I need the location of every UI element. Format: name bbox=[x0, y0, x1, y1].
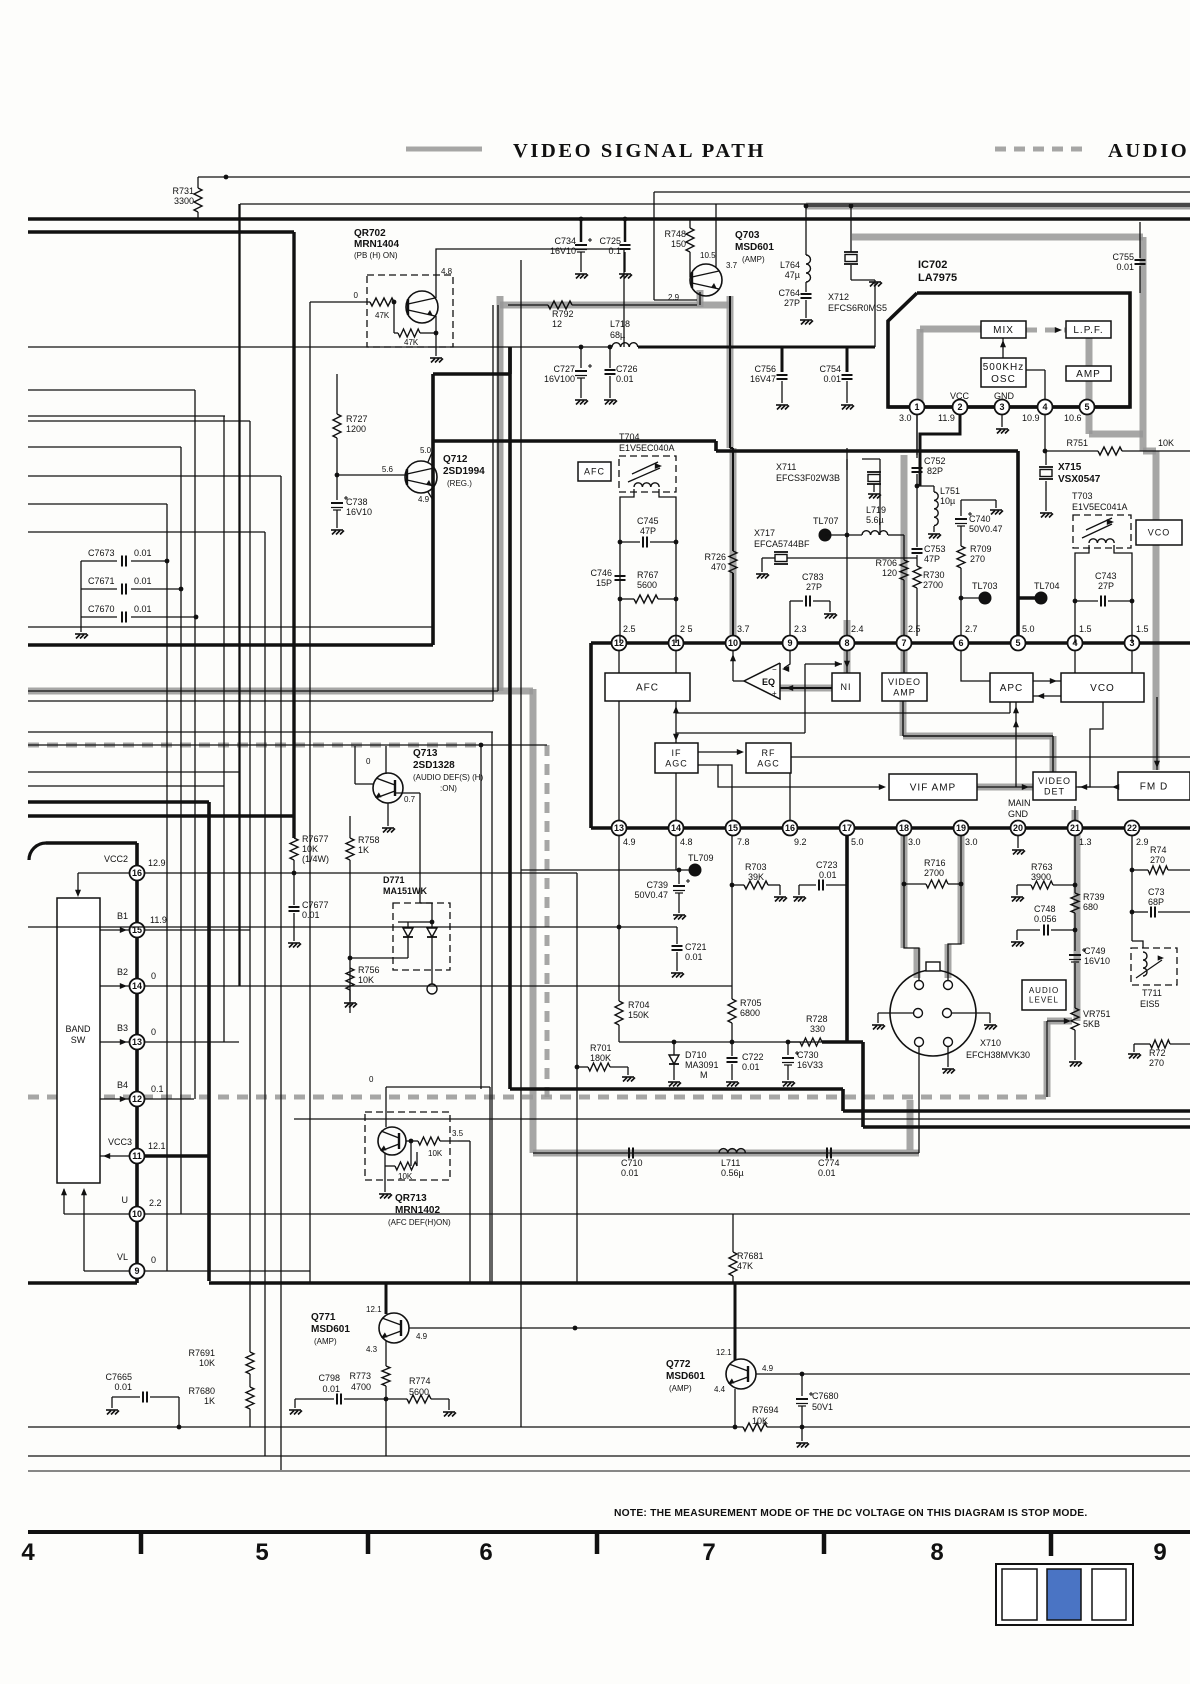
svg-text:B3: B3 bbox=[117, 1023, 128, 1033]
svg-text:R7677: R7677 bbox=[302, 834, 329, 844]
wire D771 top from Q713 bbox=[419, 855, 421, 903]
wire TL704 thick bbox=[1018, 596, 1041, 600]
svg-text:330: 330 bbox=[810, 1024, 825, 1034]
connector X710 bbox=[890, 970, 976, 1056]
svg-text:C764: C764 bbox=[778, 288, 800, 298]
nav box outer bbox=[996, 1564, 1133, 1625]
bus thick h y1111 bbox=[843, 1109, 1190, 1113]
svg-text:9: 9 bbox=[787, 638, 792, 648]
ruler tick 2 bbox=[366, 1532, 371, 1554]
svg-text:27P: 27P bbox=[1098, 581, 1114, 591]
svg-text:C746: C746 bbox=[590, 568, 612, 578]
wire bus h y745 bbox=[28, 744, 547, 746]
svg-text:10K: 10K bbox=[398, 1172, 413, 1181]
pin 22 bbox=[1125, 821, 1140, 836]
capacitor C7673 bbox=[81, 560, 117, 562]
svg-text:0: 0 bbox=[151, 1255, 156, 1265]
wire bus h y701 bbox=[28, 700, 493, 702]
wire Q771 emitter bbox=[385, 1341, 387, 1366]
svg-text:BAND: BAND bbox=[65, 1024, 91, 1034]
svg-text:10K: 10K bbox=[1158, 438, 1174, 448]
capacitor C721 bbox=[676, 927, 678, 944]
svg-text:NOTE: THE MEASUREMENT MODE OF: NOTE: THE MEASUREMENT MODE OF THE DC VOL… bbox=[614, 1508, 1087, 1519]
ground C734 bbox=[575, 274, 588, 279]
svg-text:8: 8 bbox=[930, 1539, 943, 1566]
svg-text:150K: 150K bbox=[628, 1010, 649, 1020]
ground X710 bottom bbox=[942, 1069, 955, 1074]
svg-text:C730: C730 bbox=[797, 1050, 819, 1060]
svg-text:1.3: 1.3 bbox=[1079, 837, 1092, 847]
svg-text:2 5: 2 5 bbox=[680, 624, 693, 634]
svg-text:VSX0547: VSX0547 bbox=[1058, 474, 1101, 485]
wire v x654 bbox=[653, 192, 655, 300]
svg-text:R7681: R7681 bbox=[737, 1251, 764, 1261]
svg-text:R704: R704 bbox=[628, 1000, 650, 1010]
resistor R7677 bbox=[290, 838, 298, 860]
wire L764 top bbox=[805, 206, 807, 255]
diode D771a bbox=[407, 922, 409, 928]
gray highlight layer: video/audio signal path bbox=[28, 149, 1190, 1153]
svg-text:X710: X710 bbox=[980, 1038, 1001, 1048]
svg-text:2.7: 2.7 bbox=[965, 624, 978, 634]
svg-text:B1: B1 bbox=[117, 911, 128, 921]
svg-text:VIDEO SIGNAL PATH: VIDEO SIGNAL PATH bbox=[513, 140, 766, 162]
wire pin7 v bbox=[903, 650, 905, 673]
transistor Q712 bbox=[405, 461, 437, 493]
svg-text:10.6: 10.6 bbox=[1064, 413, 1082, 423]
capacitor C726 bbox=[609, 347, 611, 368]
svg-text:C7671: C7671 bbox=[88, 576, 115, 586]
wire R727 bottom bbox=[336, 438, 338, 475]
inductor L764 bbox=[806, 255, 811, 282]
svg-text:M: M bbox=[700, 1070, 708, 1080]
wire bus v x224 bbox=[223, 416, 225, 1042]
svg-text:2700: 2700 bbox=[923, 580, 943, 590]
pin 6 bbox=[954, 636, 969, 651]
svg-text:C734: C734 bbox=[554, 236, 576, 246]
wire L718 line left bbox=[28, 346, 612, 348]
wire VCO to VDET bbox=[1078, 702, 1103, 787]
pin 3 bbox=[995, 400, 1010, 415]
svg-text:3.5: 3.5 bbox=[452, 1129, 464, 1138]
svg-text:13: 13 bbox=[132, 1037, 142, 1047]
ground C730 bbox=[782, 1082, 795, 1087]
svg-text:C754: C754 bbox=[819, 364, 841, 374]
transistor Q771 bbox=[379, 1313, 409, 1343]
wire B1 bbox=[100, 929, 130, 931]
wire C798 gnd bbox=[294, 1399, 296, 1408]
svg-text:C7665: C7665 bbox=[105, 1372, 132, 1382]
IC702 top outline bbox=[888, 293, 1130, 407]
svg-text:1.5: 1.5 bbox=[1079, 624, 1092, 634]
svg-text:L711: L711 bbox=[721, 1158, 740, 1168]
svg-text:EIS5: EIS5 bbox=[1140, 999, 1160, 1009]
svg-text:0.01: 0.01 bbox=[322, 1384, 340, 1394]
box VIF AMP bbox=[889, 774, 977, 800]
ground L751 bbox=[928, 534, 941, 539]
ground C727 bbox=[575, 400, 588, 405]
pin 12 bbox=[612, 636, 627, 651]
wire OSC out bbox=[1026, 369, 1045, 371]
svg-text:2.3: 2.3 bbox=[794, 624, 807, 634]
terminal D771 bbox=[427, 984, 437, 994]
pin 16 bbox=[783, 821, 798, 836]
wire C756 hang bbox=[781, 347, 784, 372]
svg-text:0.01: 0.01 bbox=[823, 374, 841, 384]
svg-text:0.01: 0.01 bbox=[819, 870, 837, 880]
svg-text:150: 150 bbox=[671, 239, 686, 249]
svg-text:R74: R74 bbox=[1150, 845, 1167, 855]
resistor R792 bbox=[548, 301, 572, 309]
svg-text:R767: R767 bbox=[637, 570, 659, 580]
gray path MIX to LPF bbox=[1055, 327, 1062, 333]
ground C722 bbox=[726, 1082, 739, 1087]
pin 11 VCC3 bbox=[130, 1149, 145, 1164]
svg-text:E1V5EC041A: E1V5EC041A bbox=[1072, 502, 1128, 512]
capacitor C727 bbox=[580, 347, 582, 368]
wire pin14col v bbox=[675, 835, 677, 870]
svg-text:4: 4 bbox=[21, 1539, 35, 1566]
box 500KHz OSC bbox=[981, 358, 1026, 387]
pin 4 bbox=[1038, 400, 1053, 415]
svg-text:C745: C745 bbox=[637, 516, 659, 526]
svg-text:EFCA5744BF: EFCA5744BF bbox=[754, 539, 810, 549]
svg-text:VCO: VCO bbox=[1148, 528, 1171, 538]
svg-text:R72: R72 bbox=[1149, 1048, 1166, 1058]
svg-text:QR713: QR713 bbox=[395, 1193, 427, 1204]
svg-text:4.3: 4.3 bbox=[366, 1345, 378, 1354]
svg-text:C721: C721 bbox=[685, 942, 707, 952]
svg-text:EFCS3F02W3B: EFCS3F02W3B bbox=[776, 473, 840, 483]
svg-text:2.2: 2.2 bbox=[149, 1198, 162, 1208]
ground X710 right bbox=[984, 1025, 997, 1030]
pin row top thick bbox=[591, 641, 1190, 645]
svg-text:AMP: AMP bbox=[893, 688, 916, 698]
svg-text:270: 270 bbox=[970, 554, 985, 564]
svg-text:1: 1 bbox=[914, 402, 919, 412]
pin 20 bbox=[1011, 821, 1026, 836]
nav box middle pane blue bbox=[1047, 1569, 1081, 1620]
ground C756 bbox=[776, 405, 789, 410]
svg-text:0: 0 bbox=[366, 757, 371, 766]
junction R773 bbox=[384, 1397, 389, 1402]
wire h y870 bbox=[521, 869, 695, 871]
svg-text:VCC: VCC bbox=[950, 391, 970, 401]
resistor R751 bbox=[1046, 450, 1098, 452]
pin 15 B1 bbox=[130, 923, 145, 938]
svg-text:R705: R705 bbox=[740, 998, 762, 1008]
svg-text:MIX: MIX bbox=[993, 325, 1014, 336]
nav box right pane bbox=[1092, 1569, 1126, 1620]
wire pin3 to VCO bbox=[1131, 650, 1133, 673]
pin 13 bbox=[612, 821, 627, 836]
ground Q713 bbox=[382, 828, 395, 833]
wire Q712 emitter bbox=[428, 492, 433, 500]
svg-text:AUDIO: AUDIO bbox=[1108, 140, 1189, 162]
wire C783 to pin9 bbox=[789, 601, 791, 636]
svg-text:9: 9 bbox=[134, 1266, 139, 1276]
svg-text:AGC: AGC bbox=[757, 759, 780, 769]
wire C7665 gnd bbox=[111, 1397, 113, 1408]
pin 18 bbox=[897, 821, 912, 836]
svg-text:5600: 5600 bbox=[637, 580, 657, 590]
svg-text:TL704: TL704 bbox=[1034, 581, 1060, 591]
svg-text:1K: 1K bbox=[204, 1396, 215, 1406]
svg-text:0.01: 0.01 bbox=[818, 1168, 836, 1178]
pin 5 bbox=[1080, 400, 1095, 415]
wire pin21 v bbox=[1074, 806, 1076, 821]
svg-text:50V0.47: 50V0.47 bbox=[969, 524, 1003, 534]
svg-text:68P: 68P bbox=[1148, 897, 1164, 907]
box VCO bbox=[1061, 673, 1144, 702]
pin 14 bbox=[669, 821, 684, 836]
wire U arrow up bbox=[61, 1188, 67, 1195]
svg-text:MA151WK: MA151WK bbox=[383, 886, 428, 896]
bus thick h y816 bbox=[28, 814, 294, 818]
svg-text:0.01: 0.01 bbox=[134, 576, 152, 586]
wire AFC to pin14 via bbox=[675, 701, 677, 743]
svg-text:11: 11 bbox=[132, 1151, 142, 1161]
svg-text:5.6: 5.6 bbox=[382, 465, 394, 474]
wire TL707 line bbox=[825, 534, 862, 536]
wire T703 body left bbox=[1075, 545, 1089, 643]
wire OSC to MIX arrow bbox=[1002, 338, 1004, 358]
wire v x310 base drive bbox=[310, 301, 345, 303]
ground C7680 bbox=[796, 1443, 809, 1448]
inductor L718 bbox=[612, 343, 638, 347]
svg-text:RF: RF bbox=[762, 748, 776, 758]
svg-text:AUDIO: AUDIO bbox=[1029, 986, 1059, 995]
svg-text:0: 0 bbox=[354, 291, 359, 300]
wire v x730 Q703 out bbox=[729, 296, 731, 448]
svg-text:R739: R739 bbox=[1083, 892, 1105, 902]
svg-text:16V10: 16V10 bbox=[550, 246, 576, 256]
svg-text:2.5: 2.5 bbox=[623, 624, 636, 634]
svg-text:21: 21 bbox=[1070, 823, 1080, 833]
svg-text:IC702: IC702 bbox=[918, 259, 947, 271]
svg-text:11.9: 11.9 bbox=[938, 413, 955, 423]
wire pin18 col bbox=[904, 835, 919, 981]
svg-text:5.0: 5.0 bbox=[1022, 624, 1035, 634]
svg-text:C722: C722 bbox=[742, 1052, 764, 1062]
svg-text:2.4: 2.4 bbox=[851, 624, 864, 634]
svg-text:L764: L764 bbox=[780, 260, 800, 270]
wire pin11 to AFC bbox=[675, 650, 677, 673]
svg-text:16V47: 16V47 bbox=[750, 374, 776, 384]
wire QR713 emitter bbox=[384, 1153, 386, 1166]
svg-text:C7680: C7680 bbox=[812, 1391, 839, 1401]
wire bus h y732 bbox=[28, 731, 493, 733]
bus thick h y1089 jog bbox=[510, 1087, 843, 1091]
pin 9 bbox=[783, 636, 798, 651]
svg-text:DET: DET bbox=[1044, 787, 1065, 797]
wire thick x1018 pin5 bbox=[1016, 451, 1020, 643]
svg-text:R701: R701 bbox=[590, 1043, 612, 1053]
svg-text:16V33: 16V33 bbox=[797, 1060, 823, 1070]
svg-text:GND: GND bbox=[994, 391, 1015, 401]
svg-text:2.9: 2.9 bbox=[1136, 837, 1149, 847]
svg-text:TL707: TL707 bbox=[813, 516, 839, 526]
wire VR751 wiper bbox=[1047, 1020, 1069, 1022]
svg-text:5.0: 5.0 bbox=[420, 446, 432, 455]
box APC bbox=[990, 673, 1033, 702]
svg-text:C798: C798 bbox=[318, 1373, 340, 1383]
wire R763 gnd bbox=[1016, 885, 1018, 895]
pin 9 VL bbox=[130, 1264, 145, 1279]
ruler tick 5 bbox=[1049, 1532, 1054, 1556]
svg-text:7: 7 bbox=[901, 638, 906, 648]
svg-text:MSD601: MSD601 bbox=[311, 1324, 350, 1335]
svg-text:C710: C710 bbox=[621, 1158, 643, 1168]
wire Q703 emitter down bbox=[699, 292, 701, 305]
svg-text:R7680: R7680 bbox=[188, 1386, 215, 1396]
resistor QR713 10K right bbox=[418, 1137, 440, 1145]
transistor QR713 bbox=[378, 1127, 406, 1155]
box AMP bbox=[1066, 366, 1111, 381]
box LPF bbox=[1066, 321, 1111, 338]
svg-text:MAIN: MAIN bbox=[1008, 798, 1031, 808]
svg-text:TL703: TL703 bbox=[972, 581, 998, 591]
junction C752 bbox=[915, 484, 920, 489]
bus thick x863 bbox=[861, 1042, 865, 1127]
wire VCC2 right bbox=[144, 872, 577, 874]
wire bus v x239 bbox=[238, 204, 240, 986]
wire pin22 col bbox=[1131, 835, 1133, 941]
bus thick h y645 bbox=[28, 643, 433, 647]
svg-text:19: 19 bbox=[956, 823, 966, 833]
svg-text:12: 12 bbox=[614, 638, 624, 648]
wire L764 bottom bbox=[805, 282, 807, 292]
wire bus h y416 bbox=[28, 415, 225, 417]
svg-text:3.0: 3.0 bbox=[908, 837, 921, 847]
ruler tick 3 bbox=[595, 1532, 600, 1554]
wire bus h y786 bbox=[28, 785, 224, 787]
ground C754 bbox=[841, 405, 854, 410]
svg-text::ON): :ON) bbox=[440, 784, 457, 793]
svg-text:C73: C73 bbox=[1148, 887, 1165, 897]
svg-text:C783: C783 bbox=[802, 572, 824, 582]
wire v x481 bbox=[480, 745, 482, 1089]
pin row bottom thick bbox=[591, 826, 1190, 830]
ground R72x bbox=[1128, 1054, 1141, 1059]
svg-text:0.01: 0.01 bbox=[685, 952, 703, 962]
ground X711 bbox=[868, 494, 881, 499]
svg-text:T703: T703 bbox=[1072, 491, 1093, 501]
pin 3 bbox=[1125, 636, 1140, 651]
svg-text:R774: R774 bbox=[409, 1376, 431, 1386]
svg-text:(1/4W): (1/4W) bbox=[302, 854, 329, 864]
svg-text:17: 17 bbox=[842, 823, 852, 833]
svg-text:(AFC DEF(H)ON): (AFC DEF(H)ON) bbox=[388, 1218, 451, 1227]
wire top h y204 bbox=[240, 203, 1190, 205]
wire X710 left pin bbox=[878, 1012, 913, 1014]
svg-text:TL709: TL709 bbox=[688, 853, 714, 863]
wire R7677 bottom bbox=[293, 860, 295, 905]
svg-text:1K: 1K bbox=[358, 845, 369, 855]
svg-text:3.7: 3.7 bbox=[737, 624, 750, 634]
svg-text:10K: 10K bbox=[428, 1149, 443, 1158]
capacitor C755 bbox=[1139, 222, 1141, 258]
svg-text:47P: 47P bbox=[924, 554, 940, 564]
wire Q771 collector thick bbox=[385, 1283, 388, 1314]
capacitor C764 bbox=[801, 293, 812, 295]
pin 5 bbox=[1011, 636, 1026, 651]
resistor R756 bbox=[348, 956, 353, 961]
svg-text:11.9: 11.9 bbox=[150, 915, 167, 925]
dashed box QR702 bbox=[367, 275, 453, 347]
svg-text:14: 14 bbox=[671, 823, 681, 833]
pin 2 bbox=[953, 400, 968, 415]
svg-text:VCC3: VCC3 bbox=[108, 1137, 132, 1147]
bus thick pin17 bbox=[845, 835, 849, 1042]
svg-text:VIF AMP: VIF AMP bbox=[910, 783, 956, 794]
svg-text:9.2: 9.2 bbox=[794, 837, 807, 847]
wire v x240 bbox=[239, 204, 241, 986]
svg-text:LEVEL: LEVEL bbox=[1029, 996, 1059, 1005]
svg-text:L719: L719 bbox=[866, 505, 886, 515]
svg-text:0.056: 0.056 bbox=[1034, 914, 1057, 924]
ruler tick 1 bbox=[139, 1532, 144, 1554]
pin 4 bbox=[1068, 636, 1083, 651]
box AFC small bbox=[578, 462, 611, 481]
svg-text:C725: C725 bbox=[599, 236, 621, 246]
pin 12 B4 bbox=[130, 1092, 145, 1107]
ground C748 bbox=[1011, 942, 1024, 947]
wire pin4 down bbox=[1044, 414, 1046, 451]
wire pin12 to AFC bbox=[618, 650, 620, 673]
wire v x492 down bbox=[491, 732, 493, 1283]
svg-text:4.9: 4.9 bbox=[623, 837, 636, 847]
wire QR713 collector bbox=[385, 1113, 387, 1127]
svg-text:2SD1994: 2SD1994 bbox=[443, 466, 485, 477]
ground X717 bbox=[756, 574, 769, 579]
resistor QR702 47K emitter bbox=[398, 329, 420, 337]
pin 13 B3 bbox=[130, 1035, 145, 1050]
svg-text:C726: C726 bbox=[616, 364, 638, 374]
ground X710 left bbox=[872, 1025, 885, 1030]
svg-text:X712: X712 bbox=[828, 292, 849, 302]
T703 coil bbox=[1089, 539, 1114, 543]
svg-text:7: 7 bbox=[702, 1539, 715, 1566]
wire R758 bottom bbox=[349, 860, 351, 1013]
svg-text:0.1: 0.1 bbox=[608, 246, 621, 256]
wire pin13col v bbox=[618, 835, 620, 1001]
svg-text:0.01: 0.01 bbox=[114, 1382, 132, 1392]
svg-text:C749: C749 bbox=[1084, 946, 1106, 956]
wire R756 bottom bbox=[349, 990, 351, 1001]
svg-text:GND: GND bbox=[1008, 809, 1029, 819]
svg-text:Q712: Q712 bbox=[443, 454, 468, 465]
svg-text:0.01: 0.01 bbox=[616, 374, 634, 384]
svg-text:VCO: VCO bbox=[1090, 683, 1115, 694]
ground D710 bbox=[668, 1082, 681, 1087]
svg-text:47µ: 47µ bbox=[785, 270, 800, 280]
wire AFC feedback bbox=[676, 712, 1010, 714]
svg-text:0.01: 0.01 bbox=[742, 1062, 760, 1072]
svg-text:7.8: 7.8 bbox=[737, 837, 750, 847]
ground C764 bbox=[800, 320, 813, 325]
svg-text:T711: T711 bbox=[1142, 988, 1162, 998]
pin 1 bbox=[888, 405, 1130, 409]
svg-text:R792: R792 bbox=[552, 309, 574, 319]
box AUDIO LEVEL bbox=[1022, 980, 1066, 1010]
svg-text:20: 20 bbox=[1013, 823, 1023, 833]
svg-text:2700: 2700 bbox=[924, 868, 944, 878]
svg-text:4: 4 bbox=[1042, 402, 1047, 412]
wire thick corner x510 bbox=[508, 347, 512, 374]
wire Q712 base bbox=[337, 474, 406, 476]
wire X712 to gray bbox=[850, 247, 852, 252]
